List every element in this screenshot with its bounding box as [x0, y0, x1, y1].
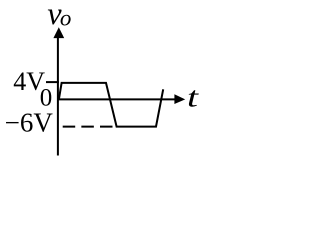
dashed -6V level [63, 126, 113, 128]
v axis [57, 37, 59, 156]
waveform [59, 83, 163, 127]
svg-text:o: o [60, 6, 72, 31]
t axis arrowhead [174, 94, 185, 104]
svg-text:−6V: −6V [5, 107, 54, 137]
svg-text:t: t [187, 82, 199, 114]
t axis [57, 98, 175, 100]
4V tick [46, 81, 59, 83]
v axis arrowhead [53, 27, 64, 38]
